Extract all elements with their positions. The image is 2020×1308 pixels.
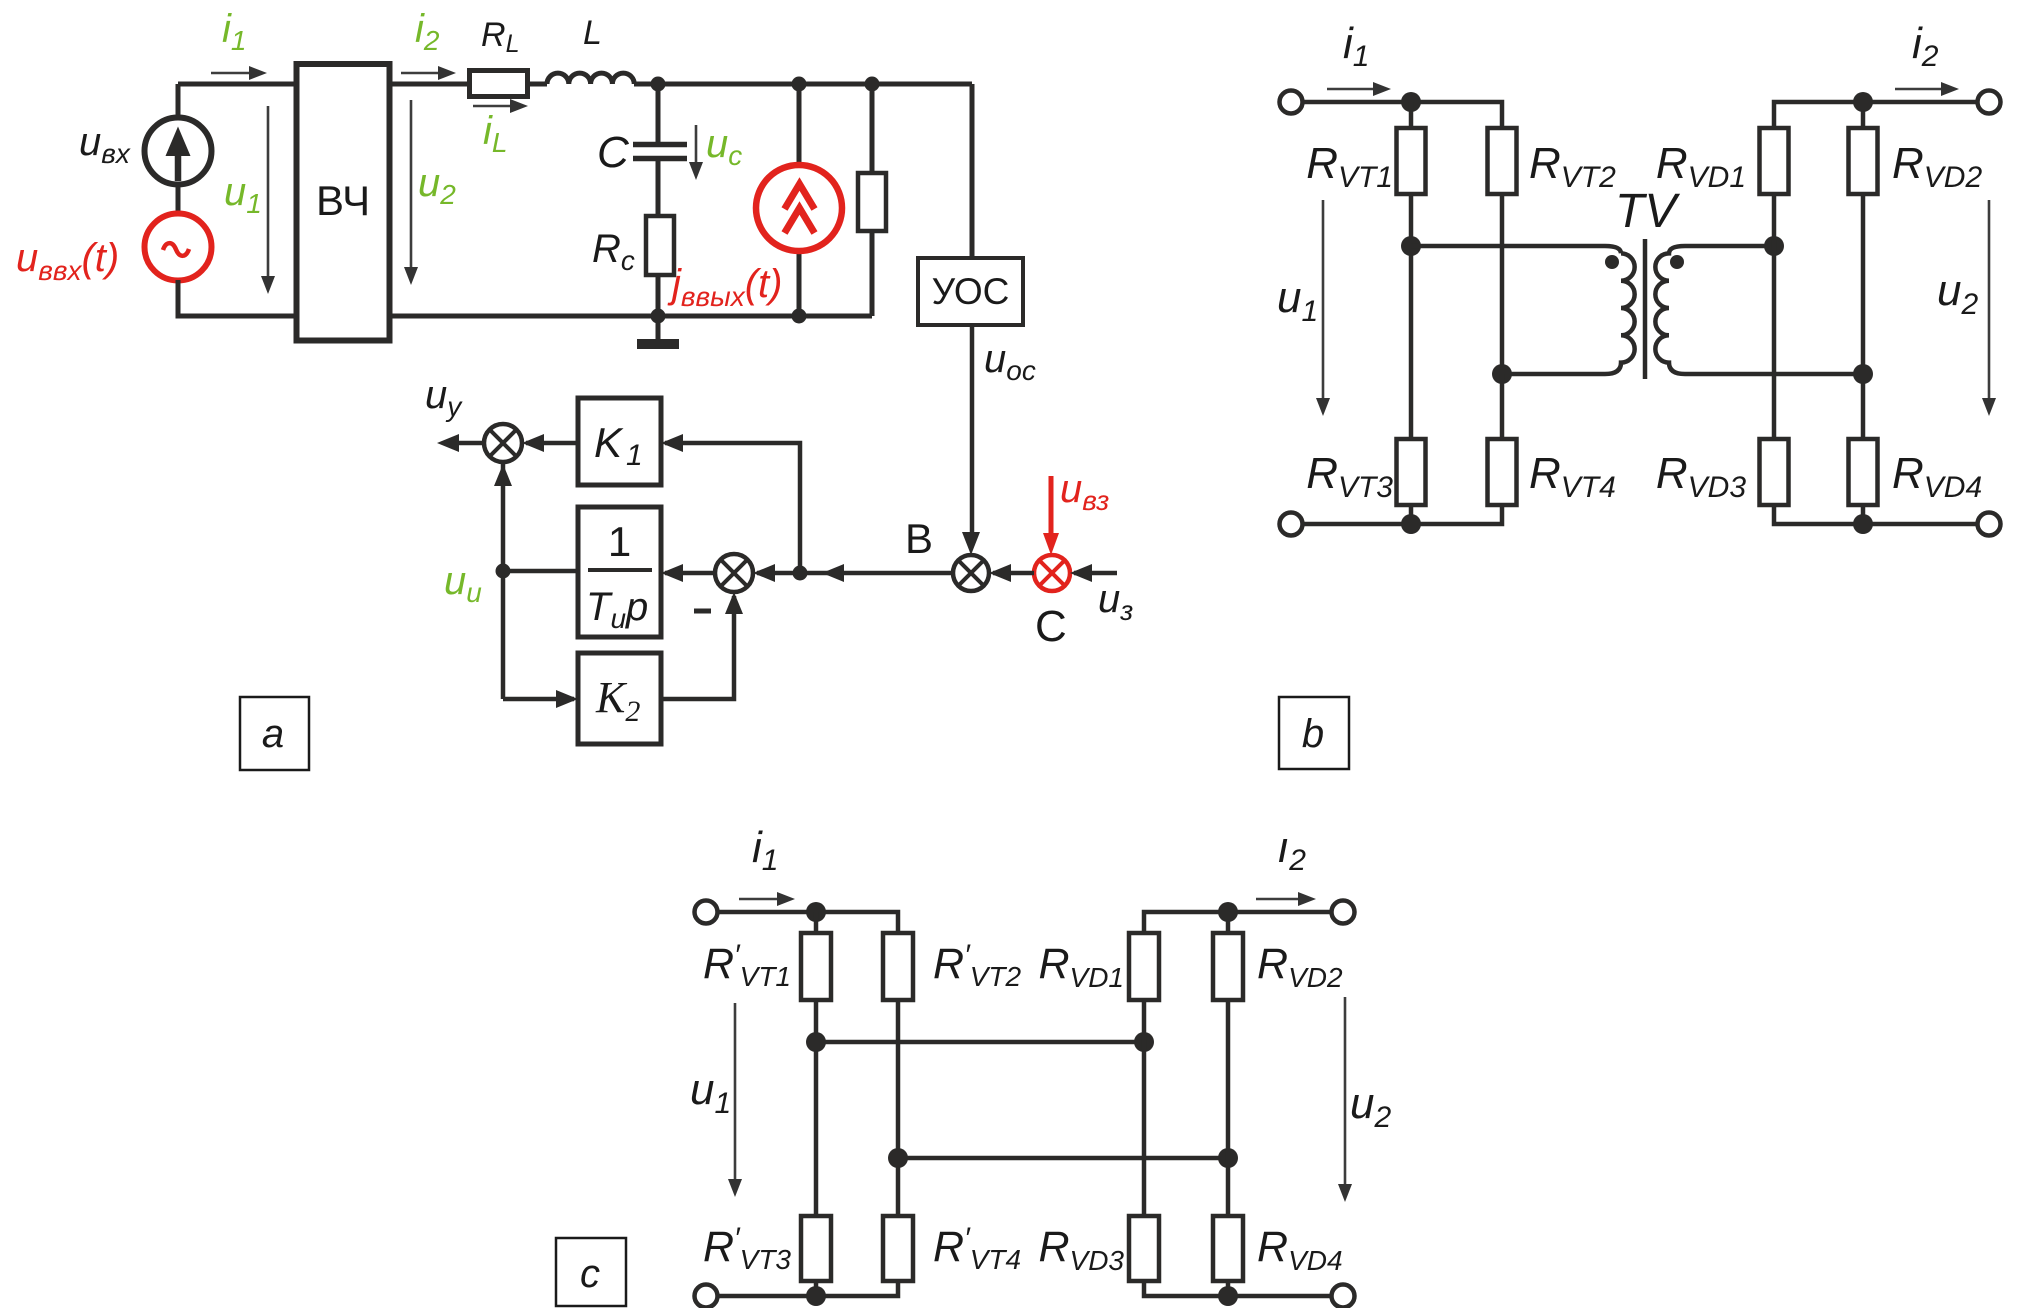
resistor R'_VT3 <box>801 1216 831 1281</box>
svg-text:RVD3: RVD3 <box>1656 449 1746 504</box>
resistor R_VD3 (c) <box>1129 1216 1159 1281</box>
col4 wire <box>1226 1000 1231 1216</box>
svg-text:uи: uи <box>444 559 482 608</box>
node c top-right junction <box>1218 902 1238 922</box>
col1 middle wire <box>1409 194 1414 439</box>
wire: left feedback vertical <box>501 462 506 699</box>
svg-text:a: a <box>262 712 284 756</box>
wire: left vertical lower + bottom to VCh <box>178 280 294 316</box>
svg-text:RVD4: RVD4 <box>1257 1223 1343 1276</box>
block UOS <box>918 258 1023 325</box>
node c lower-right junction <box>1218 1148 1238 1168</box>
node mid-left junction <box>1401 236 1421 256</box>
resistor R_VD3 <box>1760 439 1789 505</box>
svg-text:R′VT3: R′VT3 <box>703 1222 791 1275</box>
summator 1 (output u_y) <box>484 424 522 462</box>
bottom wire left half <box>1303 505 1503 524</box>
capacitor C plates <box>633 145 687 159</box>
svg-text:ı2: ı2 <box>1277 823 1306 877</box>
svg-text:C: C <box>597 128 630 177</box>
bottom wire right of VCh <box>393 314 873 319</box>
wire top corner down to UOS <box>970 84 975 258</box>
svg-text:RVT1: RVT1 <box>1306 139 1393 194</box>
svg-text:RVD3: RVD3 <box>1038 1223 1124 1276</box>
svg-text:uc: uc <box>706 122 742 171</box>
terminal c top-right <box>1332 901 1355 924</box>
frame label a <box>240 697 309 770</box>
resistor R_VD4 (c) <box>1213 1216 1243 1281</box>
svg-text:b: b <box>1302 712 1324 756</box>
node: junction above red source <box>792 77 807 92</box>
svg-text:RVD2: RVD2 <box>1257 940 1343 993</box>
svg-text:i2: i2 <box>1912 19 1939 73</box>
svg-text:i2: i2 <box>415 7 440 56</box>
terminal b top-left <box>1280 91 1303 114</box>
annotation arrow u1 down <box>734 1003 737 1183</box>
load resistor branch <box>870 84 875 316</box>
wire UOS down to summator B <box>970 325 975 533</box>
terminal c top-left <box>695 901 718 924</box>
annotation arrow i2 <box>1256 898 1300 901</box>
node u_i junction <box>496 564 511 579</box>
node top-left junction <box>1401 92 1421 112</box>
node c bottom-right junction <box>1218 1286 1238 1306</box>
node c top-left junction <box>806 902 826 922</box>
summator 2 <box>715 554 753 592</box>
node: junction after L <box>651 77 666 92</box>
col2 wire <box>896 1000 901 1216</box>
svg-text:u1: u1 <box>224 170 262 219</box>
resistor R_VD2 (c) <box>1226 912 1231 933</box>
annotation arrow iL <box>473 105 513 108</box>
svg-text:RVD1: RVD1 <box>1038 940 1124 993</box>
wire K2 up into summator 2 <box>661 596 734 699</box>
wire node to integrator <box>503 569 578 574</box>
svg-text:1: 1 <box>608 518 631 565</box>
svg-text:TV: TV <box>1615 185 1680 238</box>
wire L to right corner <box>634 82 972 87</box>
polarity dot secondary <box>1670 255 1684 269</box>
bottom wire right half <box>1774 505 1989 524</box>
resistor R'_VT4 <box>883 1216 913 1281</box>
resistor R'_VT2 <box>883 933 913 1000</box>
node bottom-left junction <box>1401 514 1421 534</box>
resistor R_VD1 (c) <box>1144 912 1343 933</box>
svg-text:uввх(t): uввх(t) <box>16 236 119 286</box>
annotation arrow i1 <box>739 898 781 901</box>
wire left vertical into K2 <box>503 697 574 702</box>
annotation arrow u2 down <box>410 100 413 271</box>
svg-text:УОС: УОС <box>932 271 1010 312</box>
block K2 (serif) <box>578 653 661 744</box>
svg-text:RVD4: RVD4 <box>1892 449 1982 504</box>
wire node D up and into K1 <box>665 443 800 573</box>
capacitor C branch wire upper <box>656 84 661 142</box>
svg-text:1: 1 <box>626 439 643 472</box>
resistor R_VT4 <box>1500 374 1505 439</box>
mid wire 1 <box>816 1040 1144 1045</box>
node D junction <box>793 566 808 581</box>
resistor Rc <box>646 216 674 275</box>
frame label b <box>1279 697 1349 769</box>
svg-text:uвз: uвз <box>1060 467 1109 516</box>
svg-text:iL: iL <box>483 109 507 158</box>
annotation arrow i1 <box>211 72 252 75</box>
node top-right junction <box>1853 92 1873 112</box>
node: bottom junction at ground <box>651 309 666 324</box>
terminal c bottom-left <box>695 1285 718 1308</box>
wire Rc to bottom <box>656 275 661 316</box>
wire R_L to L <box>528 82 548 87</box>
svg-text:RVT2: RVT2 <box>1529 139 1616 194</box>
svg-text:Rc: Rc <box>592 227 635 276</box>
bottom wire left half <box>718 1281 899 1296</box>
resistor R_L <box>470 71 528 97</box>
transformer secondary winding <box>1655 246 1862 374</box>
col4 wire <box>1861 194 1866 439</box>
svg-text:uз: uз <box>1098 577 1133 626</box>
svg-text:u2: u2 <box>1937 266 1978 321</box>
node secondary bottom junction <box>1853 364 1873 384</box>
svg-text:RVT3: RVT3 <box>1306 449 1393 504</box>
svg-text:c: c <box>580 1252 600 1296</box>
node: bottom junction red source <box>792 309 807 324</box>
wire primary bottom to node <box>1502 372 1605 377</box>
col3 wire <box>1772 194 1777 439</box>
annotation arrow uc down <box>695 125 698 166</box>
inductor L <box>547 73 634 84</box>
svg-text:u2: u2 <box>418 161 456 210</box>
svg-text:ВЧ: ВЧ <box>316 177 370 224</box>
mid wire 2 <box>898 1156 1228 1161</box>
svg-text:RL: RL <box>481 16 519 58</box>
node primary bottom junction <box>1492 364 1512 384</box>
node c lower-left junction <box>888 1148 908 1168</box>
source u_vx: black circle with up arrow <box>145 118 212 185</box>
col3 wire <box>1142 1000 1147 1216</box>
node c mid-right junction <box>1134 1032 1154 1052</box>
wire: top-left from source corner to VCh block <box>178 82 294 87</box>
svg-text:uос: uос <box>984 337 1036 386</box>
output arrow u_y <box>444 441 484 446</box>
annotation arrow i2 <box>1895 88 1943 91</box>
resistor R'_VT1 <box>814 912 819 933</box>
resistor R_VD4 <box>1849 439 1878 505</box>
ground <box>656 316 661 339</box>
wire red source branch <box>797 84 802 316</box>
node bottom-right junction <box>1853 514 1873 534</box>
polarity dot primary <box>1605 255 1619 269</box>
annotation arrow u2 down <box>1988 200 1991 402</box>
svg-text:u2: u2 <box>1350 1079 1391 1134</box>
resistor R_VT3 <box>1397 439 1426 505</box>
summator C red <box>1034 555 1070 591</box>
top wire left half <box>1303 102 1503 128</box>
wire summator B to node D <box>800 571 953 576</box>
wire summator C to summator B <box>993 571 1034 576</box>
svg-text:RVD1: RVD1 <box>1656 139 1746 194</box>
node: junction above load resistor <box>865 77 880 92</box>
node mid-right junction <box>1764 236 1784 256</box>
svg-text:uвх: uвх <box>79 120 131 169</box>
summator B <box>953 555 989 591</box>
block VCh <box>297 64 390 341</box>
top wire left half <box>718 912 899 933</box>
svg-text:B: B <box>905 515 933 562</box>
annotation arrow u1 down <box>267 106 270 280</box>
col1 wire <box>814 1000 819 1216</box>
transformer core <box>1643 239 1648 379</box>
node c mid-left junction <box>806 1032 826 1052</box>
red arrow u_vz into summator C <box>1049 476 1054 534</box>
frame label c <box>556 1238 626 1306</box>
current source j_vvyx(t): red circle with double chevron <box>756 165 842 251</box>
wire: VCh to R_L <box>393 82 470 87</box>
svg-text:i1: i1 <box>752 823 778 877</box>
resistor R_VT2 <box>1488 128 1517 194</box>
svg-text:i1: i1 <box>1343 19 1369 73</box>
svg-text:uу: uу <box>425 373 463 422</box>
svg-text:u1: u1 <box>1277 273 1318 328</box>
annotation arrow i1 <box>1327 88 1375 91</box>
wire u_z into summator C <box>1074 571 1117 576</box>
svg-text:jввых(t): jввых(t) <box>667 262 783 312</box>
svg-text:R′VT2: R′VT2 <box>933 939 1021 992</box>
svg-text:K: K <box>594 419 624 466</box>
node c bottom-left junction <box>806 1286 826 1306</box>
svg-text:R′VT4: R′VT4 <box>933 1222 1021 1275</box>
block integrator 1/T_i p <box>578 507 661 637</box>
minus sign <box>694 609 711 614</box>
wire summator 2 to integrator <box>665 571 715 576</box>
block K1 <box>578 398 661 485</box>
svg-text:C: C <box>1035 602 1067 651</box>
resistor R_VT1 <box>1409 102 1414 128</box>
wire K1 to summator 1 <box>526 441 578 446</box>
terminal b top-right <box>1978 91 2001 114</box>
svg-text:L: L <box>583 14 602 52</box>
terminal b bottom-left <box>1280 513 1303 536</box>
annotation arrow u2 down <box>1344 997 1347 1188</box>
svg-text:RVT4: RVT4 <box>1529 449 1616 504</box>
wire: between sources <box>176 184 181 214</box>
source u_vvx(t): red AC circle <box>145 214 212 281</box>
annotation arrow u1 down <box>1322 200 1325 402</box>
col2 wire down to transformer tap <box>1500 194 1505 374</box>
transformer TV primary winding <box>1605 253 1635 374</box>
svg-text:i1: i1 <box>222 7 246 56</box>
bottom wire right half <box>1144 1281 1343 1296</box>
resistor R_VD2 <box>1861 102 1866 128</box>
svg-text:u1: u1 <box>690 1065 731 1120</box>
svg-text:RVD2: RVD2 <box>1892 139 1982 194</box>
svg-text:R′VT1: R′VT1 <box>703 939 791 992</box>
terminal c bottom-right <box>1332 1285 1355 1308</box>
annotation arrow i2 <box>401 72 441 75</box>
terminal b bottom-right <box>1978 513 2001 536</box>
wire C to Rc <box>656 161 661 216</box>
wire node D to summator 2 <box>757 571 800 576</box>
resistor R_VD1 <box>1774 102 1989 128</box>
wire: left vertical source branch upper <box>176 84 181 118</box>
wire mid node to primary winding <box>1411 246 1621 253</box>
